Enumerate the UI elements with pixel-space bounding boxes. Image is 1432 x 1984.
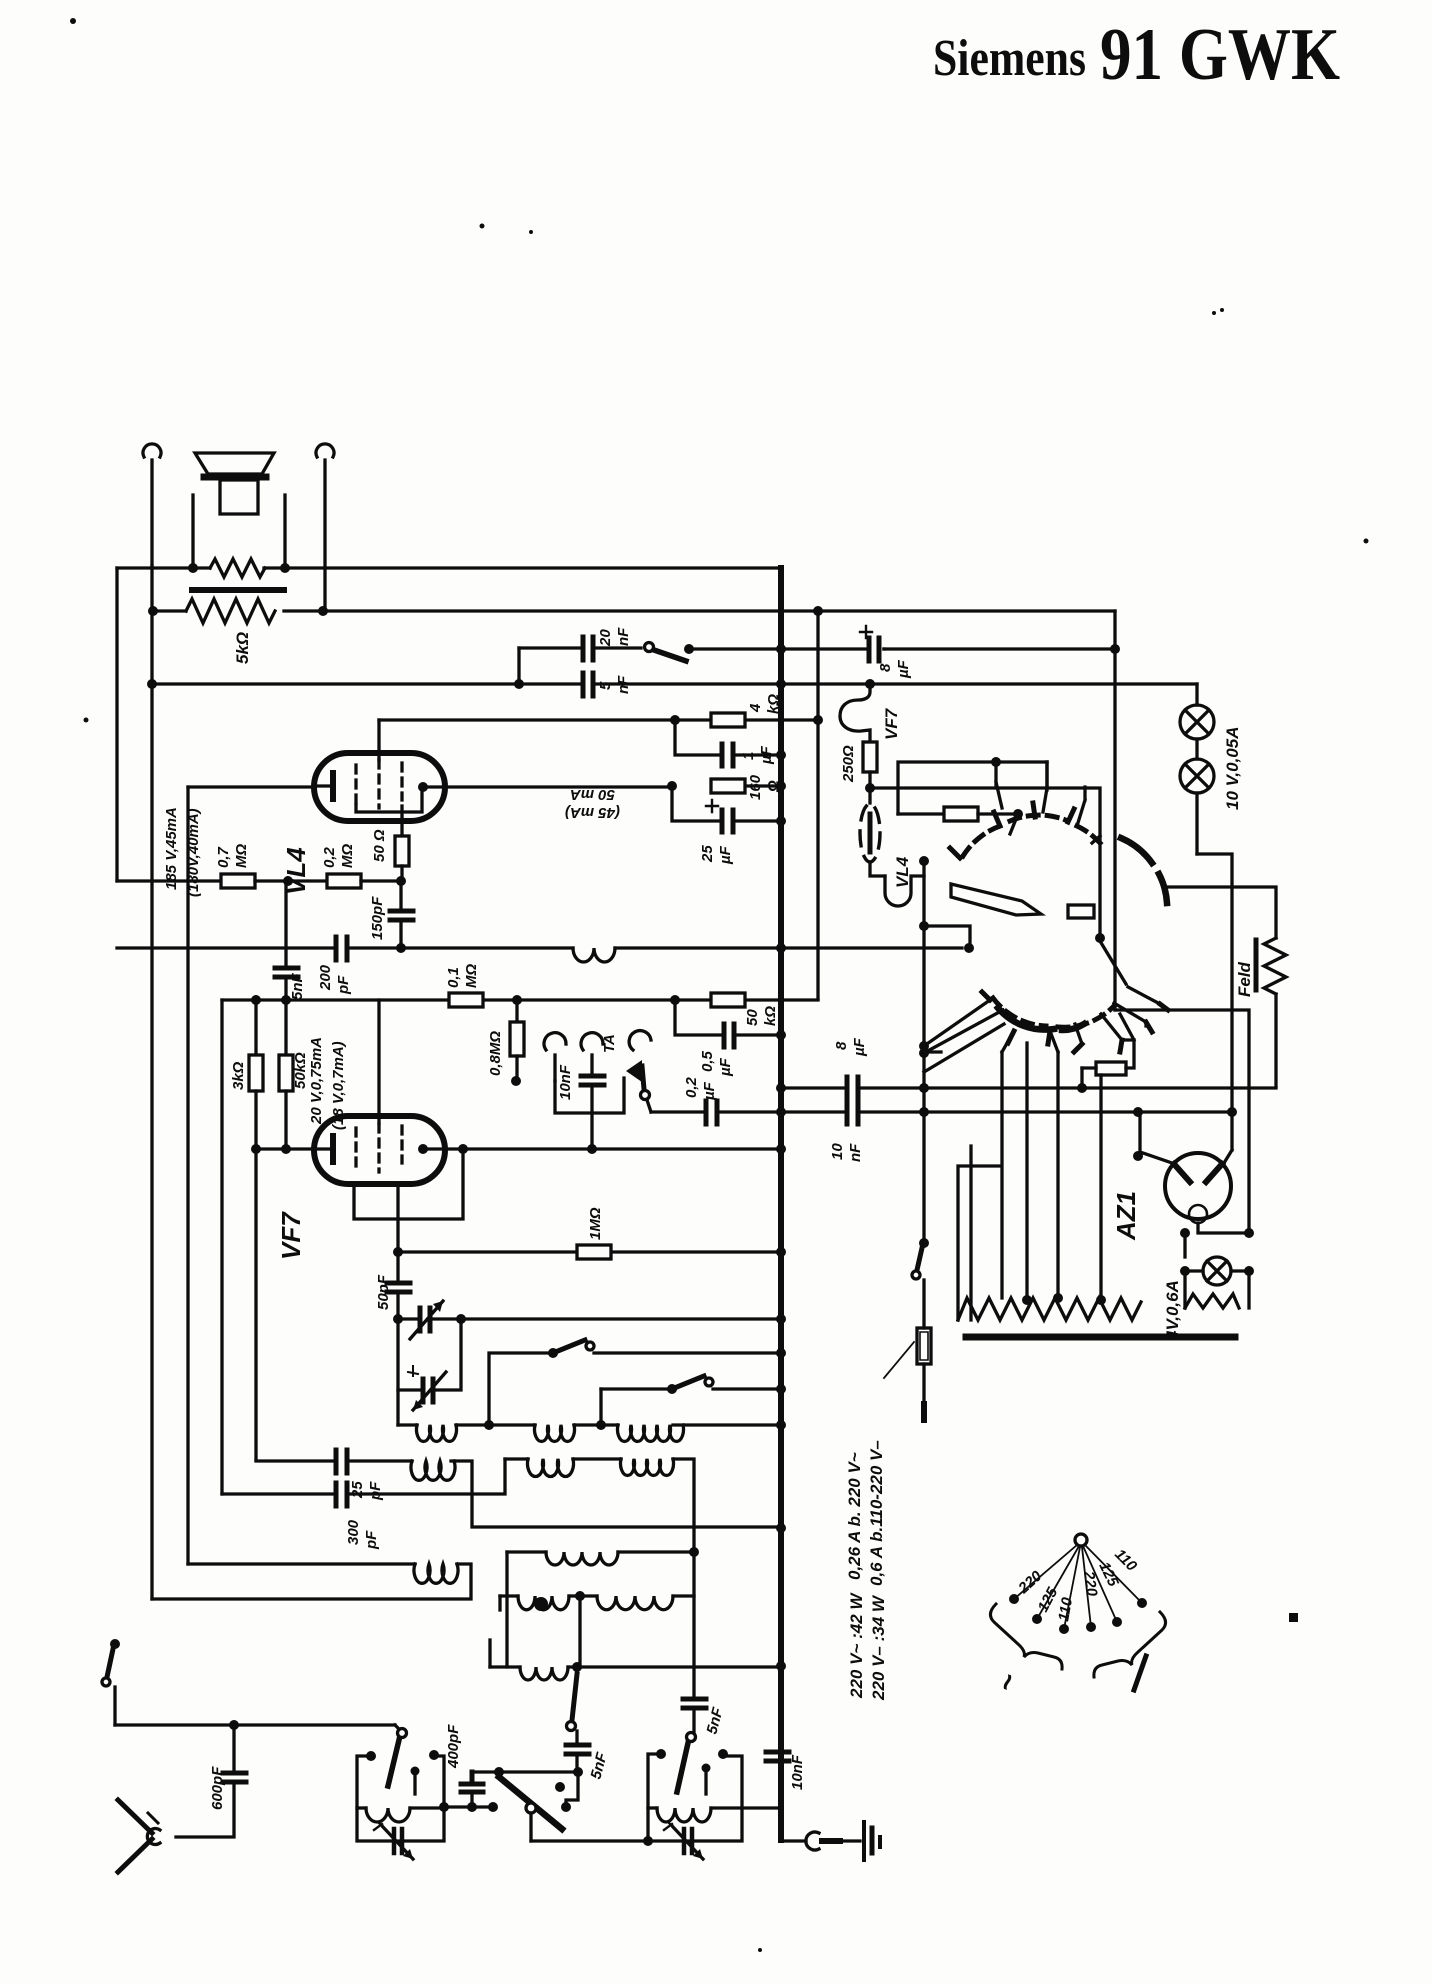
resistor Feld zigzag [1264, 938, 1286, 1086]
wire: B+ top line y613 to right corner [1113, 611, 1116, 1010]
capacitor 8uF top (electrolytic) [860, 626, 1115, 661]
fuse leader line [884, 1342, 914, 1378]
resistor 4kOhm [711, 713, 745, 727]
primary winding zigzag [958, 1298, 1141, 1320]
svg-text:µF: µF [717, 1057, 734, 1077]
wire wave-switch top [472, 1770, 578, 1773]
ground symbol [864, 1822, 880, 1860]
box2 outline [648, 1754, 742, 1841]
switch S-band2 [601, 1376, 779, 1425]
coil L-coupling on y948 [401, 948, 779, 962]
resistor 160 Ohm [711, 779, 745, 793]
capacitor 5nF grid [275, 881, 298, 1000]
coil osc L1 [398, 1425, 489, 1441]
svg-text:220 V– :34 W: 220 V– :34 W [869, 1594, 888, 1701]
AZ1 cathode wiring [1180, 1223, 1254, 1257]
lamp LA2 [1180, 739, 1214, 854]
svg-text:10 V,0,05A: 10 V,0,05A [1223, 727, 1242, 811]
coil L6 [621, 1459, 695, 1696]
svg-text:(45 mA): (45 mA) [565, 804, 620, 821]
core bar [966, 1334, 1235, 1341]
label 185V [163, 807, 202, 897]
svg-text:150pF: 150pF [369, 896, 386, 940]
svg-text:AZ1: AZ1 [1111, 1191, 1141, 1241]
capacitor 400pF [461, 1772, 483, 1807]
coil L10 [490, 1640, 779, 1680]
svg-text:0,6 A b.110-220 V–: 0,6 A b.110-220 V– [867, 1440, 886, 1586]
coil osc L3 [601, 1425, 779, 1441]
ground jack [781, 1832, 860, 1850]
wire lamp chain to transformer [1197, 854, 1232, 1112]
lamp LA3 4V [1185, 1257, 1249, 1285]
svg-text:50 Ω: 50 Ω [371, 829, 388, 862]
wire: line y611 to x818 [153, 611, 1115, 999]
rotor bottom thick arc [998, 1008, 1084, 1030]
svg-text:pF: pF [363, 1530, 380, 1550]
svg-text:250Ω: 250Ω [840, 745, 857, 783]
TA plug + switch [626, 1031, 651, 1112]
svg-text:10nF: 10nF [557, 1064, 574, 1100]
winding taps [958, 1043, 1101, 1320]
svg-text:nF: nF [847, 1143, 864, 1162]
svg-text:nF: nF [615, 627, 632, 646]
wire y720 from VL4 grid [379, 718, 818, 721]
capacitor 8uF main [781, 1077, 1276, 1100]
tube VL4 [314, 753, 445, 821]
wire osc mesh [578, 1596, 581, 1667]
svg-text:50kΩ: 50kΩ [292, 1052, 309, 1089]
wire anode y786 [423, 786, 779, 787]
capacitor 10nF TA [581, 1076, 604, 1147]
svg-text:VF7: VF7 [276, 1211, 306, 1260]
svg-text:25: 25 [349, 1481, 366, 1499]
svg-text:µF: µF [895, 659, 912, 679]
svg-text:300: 300 [345, 1519, 362, 1545]
heater return hook [885, 876, 924, 906]
trimmer capacitor C-osc1 [398, 1301, 779, 1339]
fuse F1 [917, 1328, 931, 1420]
Feld underline [1254, 940, 1259, 990]
switch S3 [692, 1712, 695, 1733]
resistor 3kOhm [249, 1000, 263, 1460]
resistor 5kOhm [186, 599, 275, 623]
antenna symbol [118, 1800, 158, 1872]
svg-text:185 V,45mA: 185 V,45mA [163, 807, 180, 890]
svg-text:8: 8 [833, 1041, 850, 1050]
svg-text:0,8MΩ: 0,8MΩ [487, 1031, 504, 1076]
capacitor 600pF [176, 1725, 246, 1837]
jack TA right [581, 1033, 603, 1073]
resistor 0,2MOhm [327, 874, 401, 888]
wire: thick bus x781 [778, 568, 784, 1840]
wire: 185V rail / cathode [117, 566, 188, 1599]
wave switch right side [566, 1772, 578, 1807]
wire y649 bus to 8uF [781, 647, 884, 650]
svg-text:0,2: 0,2 [683, 1076, 700, 1098]
heater VF7 [840, 684, 870, 742]
svg-text:µF: µF [717, 845, 734, 865]
jack TA left [544, 1033, 624, 1113]
svg-text:91 GWK: 91 GWK [1100, 14, 1340, 96]
svg-text:4V,0,6A: 4V,0,6A [1163, 1280, 1182, 1341]
wire rotor to Feld [1164, 887, 1276, 938]
svg-text:20 V,0,75mA: 20 V,0,75mA [308, 1037, 325, 1125]
contact spokes upper [996, 762, 1100, 843]
resistor 0,7MOhm [117, 874, 327, 888]
wire cluster bottoms [924, 1052, 941, 1112]
svg-text:pF: pF [367, 1481, 384, 1501]
resistor in frame [898, 807, 1023, 821]
resistor 50 Ohm [395, 836, 409, 881]
capacitor 300pF [222, 1000, 505, 1506]
svg-text:50 mA: 50 mA [570, 786, 615, 803]
resistor hum-coil on speaker line [210, 559, 265, 577]
resistor 0,1MOhm [449, 993, 483, 1007]
svg-text:kΩ: kΩ [762, 1006, 779, 1026]
svg-text:0,2: 0,2 [321, 846, 338, 868]
trimmer box2 [664, 1822, 703, 1859]
coil L8 [500, 1596, 580, 1610]
antenna jack [147, 1829, 160, 1845]
resistor 50kOhm detector [711, 993, 745, 1007]
wire antenna line y1725 [115, 1723, 395, 1726]
box1 contacts [366, 1750, 439, 1776]
wire top B+ feed [1115, 1010, 1249, 1233]
capacitor 150pF [390, 881, 413, 948]
coil L5 [505, 1459, 621, 1477]
wire y1000 top grid line [222, 998, 818, 1001]
capacitor 0,5uF series [675, 1000, 779, 1047]
svg-text:0,26 A b. 220 V~: 0,26 A b. 220 V~ [845, 1452, 864, 1580]
label power consumption [847, 1592, 888, 1701]
switch S-ant on left rail [102, 568, 120, 1725]
svg-text:20: 20 [597, 629, 614, 647]
speaker LS [193, 453, 285, 566]
resistor 0,8MOhm [510, 1000, 524, 1081]
capacitor 10nF bus [766, 1752, 789, 1761]
svg-text:3kΩ: 3kΩ [230, 1061, 247, 1090]
svg-text:(180V,40mA): (180V,40mA) [185, 808, 202, 897]
svg-text:25: 25 [699, 845, 716, 863]
terminal T2 [316, 444, 334, 609]
svg-text:MΩ: MΩ [233, 844, 250, 868]
svg-text:pF: pF [335, 975, 352, 995]
svg-text:µF: µF [758, 745, 775, 765]
main wave switch lever [499, 1777, 562, 1841]
contact bar rect [1068, 905, 1094, 918]
coil box1 [357, 1808, 444, 1822]
rotor lower arcs thick [1121, 838, 1167, 903]
svg-text:VF7: VF7 [882, 707, 901, 740]
tube VF7 [314, 1116, 445, 1184]
svg-text:5: 5 [597, 681, 614, 690]
capacitor 10nF main [781, 1101, 1232, 1124]
capacitor 1uF [675, 720, 779, 766]
wire mixer base [531, 1839, 648, 1842]
capacitor 20nF [519, 637, 641, 684]
capacitor 25pF [256, 1450, 412, 1473]
switch S-mains [912, 1238, 929, 1328]
selector braces [990, 1604, 1165, 1677]
resistor 1MOhm [398, 1245, 779, 1259]
svg-text:nF: nF [615, 675, 632, 694]
wire top y762 [898, 757, 1047, 814]
capacitor 0,2uF series [651, 1101, 779, 1124]
svg-text:400pF: 400pF [445, 1724, 462, 1769]
svg-text:µF: µF [851, 1037, 868, 1057]
coil L7 [507, 1552, 694, 1667]
junction dots y684 [147, 606, 823, 689]
trimmer capacitor C-osc2 [398, 1319, 461, 1410]
svg-text:600pF: 600pF [209, 1766, 226, 1810]
coil ant input [152, 1564, 471, 1599]
contact ticks lower [982, 992, 1168, 1052]
lamp VL4 ballast (dashed envelope) [860, 788, 885, 876]
wire x924 column [922, 1112, 925, 1238]
coil box2 [648, 1808, 779, 1822]
contact ticks upper [950, 803, 1074, 858]
filament winding 4V [1185, 1294, 1239, 1308]
lower spokes [924, 941, 1160, 1072]
svg-text:5nF: 5nF [289, 972, 306, 1000]
resistor 50kOhm screen [279, 1000, 293, 1149]
svg-text:1MΩ: 1MΩ [587, 1207, 604, 1240]
svg-text:µF: µF [701, 1081, 718, 1101]
capacitor 50pF [387, 1252, 410, 1319]
box2 contacts [643, 1749, 728, 1846]
svg-text:TA: TA [601, 1034, 618, 1053]
capacitor 200pF series [117, 937, 397, 960]
svg-text:50: 50 [744, 1009, 761, 1026]
title [933, 14, 1340, 96]
switch S3b lever [677, 1733, 696, 1793]
wire VF7 anode to bus [423, 1147, 779, 1150]
svg-text:1: 1 [740, 752, 757, 760]
label 50mA upside down [565, 786, 620, 821]
terminal T1 [143, 444, 161, 566]
label fuse rating [845, 1440, 886, 1586]
trimmer box1 [374, 1822, 413, 1859]
lamp LA1 [1180, 684, 1214, 739]
transformer core bar [192, 587, 284, 593]
svg-text:VL4: VL4 [893, 856, 912, 888]
box1 outline [357, 1756, 444, 1841]
pointer arm [951, 884, 1041, 915]
switch frame [870, 788, 1100, 1052]
lower dashed arc contacts [993, 998, 1114, 1027]
coil osc L2 [489, 1425, 601, 1441]
svg-text:160: 160 [747, 774, 764, 800]
svg-text:4: 4 [747, 703, 764, 713]
switch S-band1 [398, 1340, 779, 1425]
svg-text:Siemens: Siemens [933, 30, 1086, 87]
svg-text:Feld: Feld [1235, 961, 1254, 997]
svg-text:10nF: 10nF [789, 1754, 806, 1790]
tube AZ1 [1165, 1153, 1231, 1223]
switch S-b1 [388, 1725, 407, 1786]
resistor 250 Ohm [863, 742, 877, 788]
svg-text:8: 8 [877, 663, 894, 672]
rotary contacts upper arc [963, 815, 1100, 856]
svg-text:0,1: 0,1 [445, 967, 462, 988]
coil L9 [580, 1596, 694, 1610]
capacitor 5nF top [583, 673, 593, 696]
wire: line y684 main [152, 682, 1197, 685]
svg-text:0,7: 0,7 [215, 846, 232, 868]
svg-text:5kΩ: 5kΩ [233, 632, 252, 664]
svg-text:10: 10 [829, 1143, 846, 1160]
svg-text:MΩ: MΩ [463, 964, 480, 988]
junction dots speaker line [188, 563, 290, 573]
svg-text:200: 200 [317, 964, 334, 991]
wire y1807 stub [444, 1805, 493, 1808]
svg-text:0,5: 0,5 [699, 1050, 716, 1072]
switch S1 on 20nF line [645, 643, 780, 662]
coil ant L4 [411, 1461, 779, 1527]
switch S2 + capacitor 5nF left [566, 1667, 589, 1772]
svg-text:50pF: 50pF [375, 1274, 392, 1310]
capacitor 5nF right [683, 1699, 706, 1708]
small resistor near transformer [1082, 1014, 1134, 1088]
svg-text:MΩ: MΩ [339, 844, 356, 868]
svg-text:220 V~ :42 W: 220 V~ :42 W [847, 1592, 866, 1699]
capacitor 25uF electrolytic [672, 786, 779, 832]
stray mark [1289, 1613, 1298, 1622]
wire: line y568 left rail to bus [117, 566, 779, 569]
